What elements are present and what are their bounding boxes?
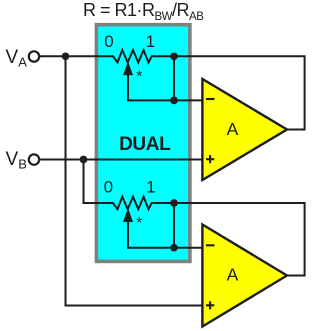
svg-text:*: * xyxy=(136,69,142,86)
svg-text:0: 0 xyxy=(104,178,113,197)
svg-text:0: 0 xyxy=(104,32,113,51)
svg-text:DUAL: DUAL xyxy=(119,134,171,155)
svg-text:R = R1·RBW/RAB: R = R1·RBW/RAB xyxy=(83,0,204,23)
svg-text:1: 1 xyxy=(146,178,155,197)
svg-text:A: A xyxy=(227,119,239,139)
svg-text:A: A xyxy=(227,265,239,285)
svg-text:*: * xyxy=(136,215,142,232)
svg-text:1: 1 xyxy=(146,32,155,51)
